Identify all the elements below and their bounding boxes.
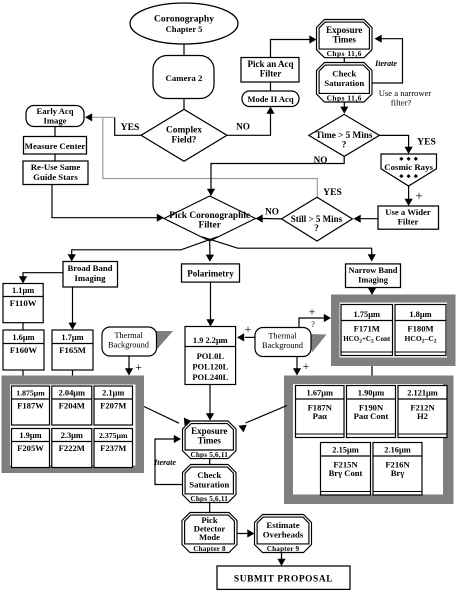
- polarimetry filter box 1.9 2.2um POL0L POL120L POL240L: [185, 327, 236, 385]
- wire Broad Band Imaging to F165M: [72, 287, 74, 323]
- predefined process: Check Saturation Chps 11,6: [317, 63, 373, 103]
- svg-text:Chapter 9: Chapter 9: [267, 545, 300, 553]
- decision diamond: Pick Coronographic Filter: [164, 196, 256, 241]
- svg-text:1.9μm: 1.9μm: [19, 431, 41, 440]
- process Camera 2: [153, 56, 214, 99]
- filter cell 2.16um F216N Br-gamma: [373, 443, 422, 496]
- svg-text:Use a narrower: Use a narrower: [379, 88, 432, 98]
- svg-text:+: +: [135, 360, 142, 374]
- svg-text:F204M: F204M: [59, 400, 85, 410]
- wire Exposure Times to Check Saturation (bottom): [209, 459, 211, 465]
- svg-text:Pick an Acq: Pick an Acq: [247, 59, 293, 69]
- svg-text:Coronography: Coronography: [154, 14, 214, 25]
- svg-text:Times: Times: [333, 35, 357, 45]
- svg-text:F171M: F171M: [354, 324, 380, 334]
- svg-text:Iterate: Iterate: [374, 59, 397, 68]
- svg-text:Chapter 8: Chapter 8: [193, 545, 226, 553]
- svg-text:Polarimetry: Polarimetry: [187, 269, 234, 279]
- process Re-Use Same Guide Stars: [23, 161, 88, 185]
- svg-text:F205W: F205W: [17, 443, 44, 453]
- svg-text:2.15μm: 2.15μm: [332, 446, 358, 455]
- svg-text:2.121μm: 2.121μm: [407, 389, 438, 398]
- filter cell 1.67um F187N Pa-alpha: [296, 386, 345, 438]
- filter cell 2.1um F207M: [94, 386, 133, 425]
- svg-text:Camera 2: Camera 2: [166, 73, 203, 83]
- svg-text:Mode II Acq: Mode II Acq: [247, 94, 294, 104]
- svg-text:1.67μm: 1.67μm: [307, 389, 333, 398]
- svg-text:Saturation: Saturation: [324, 78, 364, 88]
- decision diamond: Still > 5 Mins?: [282, 197, 353, 241]
- wire POL filter box to Exposure Times: [209, 385, 211, 414]
- decision diamond: Time > 5 Mins?: [309, 114, 380, 156]
- svg-text:Times: Times: [198, 436, 222, 446]
- svg-text:Check: Check: [332, 69, 356, 79]
- svg-text:?: ?: [314, 223, 319, 233]
- filter cell 2.15um F215N Br-gamma Cont: [321, 443, 371, 496]
- filter cell 1.75um F171M HCO2+C2 Cont: [341, 305, 393, 356]
- process Pick an Acq Filter: [241, 58, 299, 83]
- process Narrow Band Imaging: [346, 264, 401, 288]
- svg-text:F160W: F160W: [10, 345, 38, 355]
- svg-text:+: +: [245, 322, 252, 336]
- wire Pick Coronographic Filter to Broad Band Imaging: [72, 237, 218, 255]
- wire upper narrow-band group to lower group: [371, 366, 373, 376]
- wire F165M to gray filter group: [72, 370, 74, 376]
- svg-text:Chps 5,6,11: Chps 5,6,11: [190, 451, 228, 459]
- wire Thermal Background to narrow-band group, labels + ?: [299, 318, 324, 328]
- svg-text:Exposure: Exposure: [191, 426, 227, 436]
- svg-text:Time > 5 Mins: Time > 5 Mins: [316, 130, 373, 140]
- process Broad Band Imaging: [63, 262, 118, 288]
- svg-text:POL0L: POL0L: [197, 351, 225, 361]
- filter cell 1.90um F190N Pa-alpha Cont: [347, 386, 396, 438]
- predefined process: Exposure Times Chps 11,6: [317, 20, 373, 58]
- svg-text:+: +: [303, 359, 310, 373]
- svg-text:Filter: Filter: [199, 221, 221, 231]
- filter cell 1.8um F180M HCO2-C2: [395, 305, 446, 356]
- filter box 1.7um F165M: [52, 330, 93, 370]
- svg-text:NO: NO: [265, 207, 279, 217]
- wire Complex Field NO to Mode II Acq: [227, 114, 271, 136]
- wire Complex Field YES to Early Acq Image: [115, 117, 141, 135]
- wire Time>5Mins YES to Cosmic Rays: [379, 135, 408, 147]
- wire Mode II Acq to Pick an Acq Filter: [270, 82, 272, 91]
- wire lower narrow-band group to Exposure Times (diagonal): [246, 406, 288, 424]
- wire Time>5Mins NO to Pick Coronographic Filter: [211, 156, 344, 189]
- svg-text:+: +: [415, 188, 422, 203]
- svg-text:Re-Use Same: Re-Use Same: [31, 162, 81, 172]
- wire broad-band group to Exposure Times (diagonal): [144, 407, 179, 424]
- filter cell 1.9um F205W: [12, 429, 50, 468]
- process Use a Wider Filter: [378, 206, 439, 229]
- predefined process: Exposure Times Chps 5,6,11: [183, 421, 237, 459]
- svg-text:Thermal: Thermal: [114, 331, 143, 340]
- svg-text:POL240L: POL240L: [192, 372, 228, 382]
- svg-text:F237M: F237M: [100, 443, 126, 453]
- terminator Mode II Acq: [242, 91, 299, 107]
- svg-text:Chps 11,6: Chps 11,6: [327, 93, 362, 102]
- terminator ellipse: Coronography Chapter 5: [130, 3, 238, 44]
- svg-text:2.04μm: 2.04μm: [59, 389, 85, 398]
- wire Thermal Background down to lower narrow-band group, label +: [296, 357, 298, 370]
- svg-text:Background: Background: [108, 341, 150, 350]
- svg-text:Image: Image: [44, 115, 67, 125]
- svg-text:Brγ Cont: Brγ Cont: [329, 468, 363, 478]
- svg-text:Early Acq: Early Acq: [36, 106, 73, 116]
- wire ellipse to Camera 2: [183, 44, 185, 56]
- svg-text:Saturation: Saturation: [189, 479, 229, 489]
- svg-text:Filter: Filter: [260, 69, 282, 79]
- wire Re-Use Same Guide Stars to Pick Coronographic Filter: [52, 185, 158, 218]
- svg-text:1.9 2.2μm: 1.9 2.2μm: [193, 336, 228, 345]
- callout Thermal Background (right): [310, 334, 327, 353]
- svg-text:Imaging: Imaging: [75, 273, 107, 283]
- svg-text:Brγ: Brγ: [391, 468, 405, 478]
- filter cell 1.875um F187W: [12, 386, 50, 425]
- wire iterate loop Check Saturation to Exposure Times: [372, 39, 403, 83]
- svg-text:Paα: Paα: [313, 411, 328, 421]
- gray frame: broad-band coronographic filter group: [2, 376, 145, 474]
- wire Exposure Times to Check Saturation: [343, 58, 345, 63]
- svg-text:YES: YES: [121, 122, 140, 133]
- svg-text:Paα Cont: Paα Cont: [354, 411, 389, 421]
- filter cell 2.121um F212N H2: [398, 386, 447, 438]
- svg-text:2.375μm: 2.375μm: [99, 431, 128, 440]
- svg-text:2.16μm: 2.16μm: [384, 446, 410, 455]
- svg-text:NO: NO: [236, 122, 250, 132]
- svg-text:F110W: F110W: [10, 298, 37, 308]
- svg-text:F207M: F207M: [100, 400, 126, 410]
- svg-text:Thermal: Thermal: [268, 332, 297, 341]
- wire Pick an Acq Filter to Exposure Times: [271, 40, 310, 58]
- wire Thermal Background to POL box, label +: [245, 336, 255, 338]
- svg-text:1.6μm: 1.6μm: [12, 333, 34, 342]
- svg-text:1.75μm: 1.75μm: [354, 310, 380, 319]
- svg-text:POL120L: POL120L: [192, 362, 228, 372]
- svg-text:+: +: [309, 305, 316, 319]
- svg-text:Check: Check: [197, 470, 221, 480]
- filter box 1.6um F160W: [3, 330, 44, 370]
- wire iterate loop Check Saturation to Exposure Times (bottom): [155, 439, 183, 485]
- gray wire: Still>5Mins YES loop back to Early Acq Image: [103, 117, 317, 196]
- terminator Early Acq Image: [26, 106, 84, 127]
- svg-text:Pick Coronographic: Pick Coronographic: [169, 211, 250, 221]
- wire Still>5Mins NO to Pick Coronographic Filter: [263, 218, 282, 220]
- process Measure Center: [24, 137, 87, 155]
- wire Check Saturation to Pick Detector Mode: [209, 503, 211, 514]
- wire Cosmic Rays to Use a Wider Filter, label +: [408, 186, 410, 200]
- svg-text:F165M: F165M: [59, 345, 87, 355]
- wire Pick Coronographic Filter to Polarimetry: [209, 241, 211, 255]
- wire Pick Coronographic Filter to Narrow Band Imaging: [202, 237, 372, 255]
- svg-text:1.7μm: 1.7μm: [61, 333, 83, 342]
- svg-text:2.3μm: 2.3μm: [61, 431, 83, 440]
- svg-text:Mode: Mode: [199, 532, 220, 542]
- predefined process: Estimate Overheads Chapter 9: [255, 515, 312, 553]
- process SUBMIT PROPOSAL: [217, 566, 350, 589]
- svg-text:Overheads: Overheads: [263, 529, 304, 539]
- svg-text:?: ?: [311, 320, 315, 329]
- svg-text:YES: YES: [323, 187, 342, 198]
- decision diamond: Complex Field?: [141, 109, 227, 161]
- wire Camera 2 to Complex Field diamond: [183, 99, 185, 111]
- svg-text:H2: H2: [417, 411, 428, 421]
- svg-text:Background: Background: [262, 341, 304, 350]
- svg-text:Imaging: Imaging: [358, 275, 389, 284]
- svg-text:F187W: F187W: [17, 400, 44, 410]
- wire Estimate Overheads to Submit Proposal: [281, 553, 283, 561]
- wire Narrow Band Imaging to narrow-band group: [371, 288, 373, 290]
- filter cell 2.3um F222M: [52, 429, 92, 468]
- svg-text:Use a Wider: Use a Wider: [385, 207, 431, 217]
- svg-text:2.1μm: 2.1μm: [102, 389, 124, 398]
- wire Pick Detector Mode to Estimate Overheads: [237, 533, 248, 535]
- wire Use a Wider Filter to Still>5Mins: [361, 218, 379, 220]
- gray frame: narrow-band filter group (lower): [284, 376, 454, 505]
- wire Broad Band Imaging to F110W box: [23, 273, 63, 277]
- svg-text:Filter: Filter: [398, 216, 419, 226]
- svg-text:Chps 11,6: Chps 11,6: [327, 49, 362, 58]
- svg-text:HCO2–C2: HCO2–C2: [404, 334, 436, 345]
- svg-text:Field?: Field?: [172, 136, 197, 146]
- svg-text:Narrow Band: Narrow Band: [349, 266, 398, 275]
- svg-text:1.1μm: 1.1μm: [12, 286, 34, 295]
- svg-text:F180M: F180M: [407, 324, 433, 334]
- svg-text:Estimate: Estimate: [266, 520, 299, 530]
- wire F110W to F160W: [22, 323, 24, 330]
- svg-text:YES: YES: [417, 137, 436, 148]
- svg-text:Measure Center: Measure Center: [25, 141, 86, 151]
- wire Thermal Background to gray filter group, label +: [128, 356, 130, 370]
- svg-text:1.90μm: 1.90μm: [358, 389, 384, 398]
- svg-text:Chapter 5: Chapter 5: [166, 24, 203, 34]
- wire Check Saturation to Time>5Mins diamond: [343, 102, 345, 107]
- annotation shape: Cosmic Rays: [381, 154, 437, 186]
- wire F160W to gray filter group: [22, 370, 24, 376]
- filter cell 2.04um F204M: [52, 386, 92, 425]
- filter cell 2.375um F237M: [94, 429, 133, 468]
- svg-text:filter?: filter?: [391, 98, 412, 108]
- svg-text:Cosmic Rays: Cosmic Rays: [384, 162, 433, 172]
- process Polarimetry: [182, 264, 240, 282]
- gray frame: narrow-band filter group (upper): [331, 295, 456, 367]
- svg-text:F222M: F222M: [59, 443, 85, 453]
- wire Measure Center to Re-Use Same Guide Stars: [54, 154, 56, 162]
- svg-text:Chps 5,6,11: Chps 5,6,11: [190, 495, 228, 503]
- wire Polarimetry to POL filter box: [210, 282, 212, 320]
- wire Early Acq to Measure Center: [54, 127, 56, 138]
- svg-text:1.8μm: 1.8μm: [409, 310, 431, 319]
- svg-text:SUBMIT PROPOSAL: SUBMIT PROPOSAL: [234, 575, 333, 585]
- svg-text:Guide Stars: Guide Stars: [33, 172, 78, 182]
- predefined process: Pick Detector Mode Chapter 8: [182, 513, 237, 553]
- svg-text:?: ?: [342, 140, 347, 150]
- filter box 1.1um F110W: [3, 284, 43, 323]
- svg-text:Broad Band: Broad Band: [68, 263, 113, 273]
- callout Thermal Background (left): [154, 331, 174, 351]
- svg-text:Complex: Complex: [166, 126, 202, 136]
- svg-text:Iterate: Iterate: [153, 458, 176, 467]
- predefined process: Check Saturation Chps 5,6,11: [183, 465, 237, 503]
- svg-text:Exposure: Exposure: [326, 25, 362, 35]
- svg-text:1.875μm: 1.875μm: [16, 389, 45, 398]
